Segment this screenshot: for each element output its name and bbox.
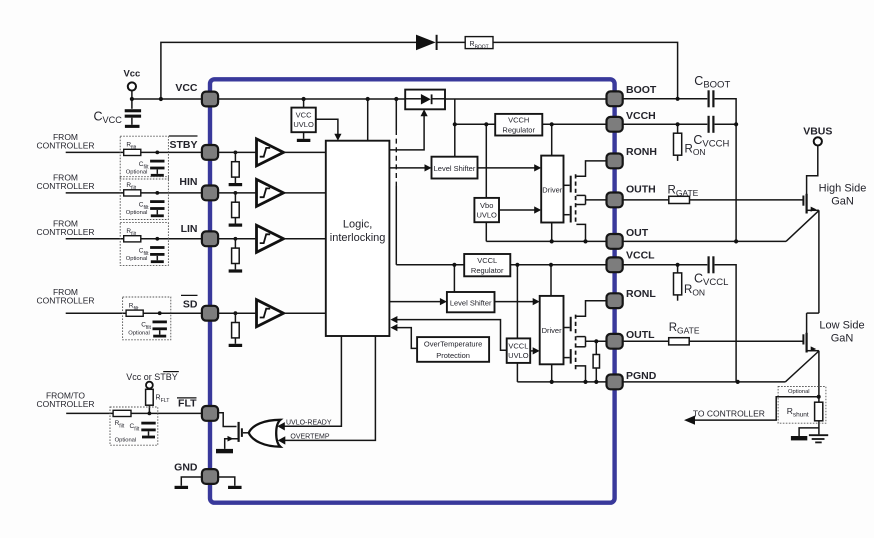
svg-text:Vbo: Vbo bbox=[480, 201, 493, 210]
svg-text:UVLO: UVLO bbox=[293, 120, 314, 129]
svg-text:HIN: HIN bbox=[179, 176, 197, 188]
svg-text:Vcc or STBY: Vcc or STBY bbox=[126, 372, 178, 382]
svg-text:Optional: Optional bbox=[126, 170, 148, 176]
svg-text:High Side: High Side bbox=[819, 182, 867, 194]
svg-text:UVLO-READY: UVLO-READY bbox=[286, 419, 332, 426]
svg-text:Level Shifter: Level Shifter bbox=[450, 298, 492, 307]
svg-text:Driver: Driver bbox=[542, 186, 563, 195]
svg-text:VCCL: VCCL bbox=[477, 256, 497, 265]
svg-text:Optional: Optional bbox=[126, 256, 148, 262]
svg-text:VCC: VCC bbox=[296, 111, 312, 120]
svg-text:VBUS: VBUS bbox=[803, 125, 832, 137]
svg-text:VCCL: VCCL bbox=[626, 249, 655, 261]
svg-text:RONH: RONH bbox=[626, 146, 657, 158]
svg-text:UVLO: UVLO bbox=[508, 351, 529, 360]
svg-text:Low Side: Low Side bbox=[819, 319, 864, 331]
svg-text:VCCH: VCCH bbox=[626, 110, 656, 122]
svg-text:TO CONTROLLER: TO CONTROLLER bbox=[693, 409, 765, 419]
svg-text:OUT: OUT bbox=[626, 227, 649, 239]
svg-text:Driver: Driver bbox=[542, 326, 563, 335]
svg-text:VCCL: VCCL bbox=[508, 341, 528, 350]
svg-text:GND: GND bbox=[174, 462, 198, 474]
svg-text:Regulator: Regulator bbox=[471, 266, 504, 275]
svg-text:Protection: Protection bbox=[436, 351, 470, 360]
svg-text:Optional: Optional bbox=[126, 210, 148, 216]
svg-text:RONL: RONL bbox=[626, 288, 656, 300]
svg-text:CONTROLLER: CONTROLLER bbox=[36, 141, 94, 151]
svg-text:GaN: GaN bbox=[831, 195, 854, 207]
svg-text:UVLO: UVLO bbox=[476, 211, 497, 220]
svg-text:Optional: Optional bbox=[128, 331, 150, 337]
svg-text:Optional: Optional bbox=[788, 389, 810, 395]
svg-text:Vcc: Vcc bbox=[123, 69, 140, 80]
svg-text:interlocking: interlocking bbox=[330, 232, 386, 244]
svg-text:VCCH: VCCH bbox=[508, 116, 529, 125]
svg-text:Optional: Optional bbox=[115, 438, 137, 444]
svg-text:FLT: FLT bbox=[178, 398, 197, 410]
svg-text:CONTROLLER: CONTROLLER bbox=[36, 227, 94, 237]
svg-text:Regulator: Regulator bbox=[502, 125, 535, 134]
svg-text:OUTL: OUTL bbox=[626, 329, 655, 341]
svg-text:STBY: STBY bbox=[169, 139, 197, 151]
svg-text:CONTROLLER: CONTROLLER bbox=[36, 181, 94, 191]
svg-text:OVERTEMP: OVERTEMP bbox=[290, 434, 329, 441]
svg-text:OUTH: OUTH bbox=[626, 184, 656, 196]
svg-text:OverTemperature: OverTemperature bbox=[424, 340, 482, 349]
svg-text:Level Shifter: Level Shifter bbox=[434, 164, 476, 173]
svg-text:SD: SD bbox=[183, 299, 198, 311]
svg-text:VCC: VCC bbox=[175, 82, 198, 94]
svg-text:Logic,: Logic, bbox=[343, 219, 372, 231]
svg-text:CONTROLLER: CONTROLLER bbox=[36, 295, 94, 305]
svg-text:BOOT: BOOT bbox=[626, 84, 657, 96]
svg-text:PGND: PGND bbox=[626, 370, 657, 382]
svg-text:LIN: LIN bbox=[181, 223, 198, 235]
svg-text:CONTROLLER: CONTROLLER bbox=[36, 399, 94, 409]
svg-text:GaN: GaN bbox=[831, 332, 854, 344]
